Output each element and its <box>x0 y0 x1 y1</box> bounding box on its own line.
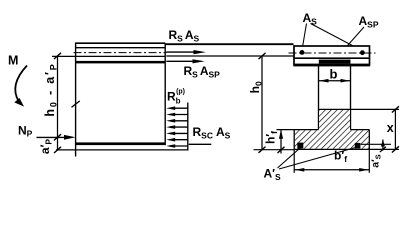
svg-text:h0 - a′P: h0 - a′P <box>43 62 59 116</box>
compression zone hatch <box>295 110 369 149</box>
web right edge <box>350 65 352 130</box>
bottom flange right edge <box>368 130 370 150</box>
section top flange <box>294 46 370 65</box>
Asp bar <box>319 60 351 64</box>
x dim tick top <box>392 106 399 112</box>
dim tick h0 top on Asp line <box>259 53 266 59</box>
beam top edge <box>75 42 165 44</box>
As bar dot right <box>360 50 365 55</box>
x dim tick bottom <box>392 146 399 152</box>
svg-text:b: b <box>330 67 338 82</box>
hatch boundary (top of compression zone) <box>319 108 351 110</box>
Rsc As underline <box>189 143 212 145</box>
bottom fibre line <box>56 149 188 151</box>
bottom flange top edge left + h'f extension <box>277 129 319 131</box>
Rb stress block arrows <box>170 108 188 146</box>
leader As to left bar <box>302 24 307 51</box>
a's extension line from bar <box>361 143 391 145</box>
break mark on beam left edge <box>72 101 80 107</box>
b dimension line <box>319 79 351 83</box>
dim tick bottom <box>54 147 61 153</box>
Asp level projection line <box>166 55 294 57</box>
h'f dimension line <box>279 130 283 154</box>
x dimension line <box>394 109 396 149</box>
beam top flange line 1 <box>76 47 166 49</box>
leader A's to left square <box>278 148 300 168</box>
Rs Asp force arrow <box>166 59 205 63</box>
bottom flange left edge <box>293 130 295 150</box>
Rs As force arrow <box>166 50 206 54</box>
leader As to right bar <box>311 24 362 51</box>
h0 dim tick bottom <box>259 147 266 153</box>
extension line at Asp level <box>52 55 76 57</box>
A's bar square left <box>297 143 303 149</box>
a's dimension line <box>382 140 384 151</box>
a's dim tick bottom <box>380 147 386 152</box>
bottom fibre extension left of section <box>254 149 295 151</box>
bottom fibre extension right of section <box>369 148 399 150</box>
h0 dimension line <box>261 56 263 150</box>
bottom flange top edge right <box>351 129 370 131</box>
leader A's to right square <box>279 148 356 170</box>
beam left edge <box>75 43 77 156</box>
Rb stress block right edge <box>187 103 189 151</box>
leader Asp to bar <box>335 27 364 60</box>
a's dim arrow up <box>381 139 385 146</box>
moment arc arrow <box>14 66 27 107</box>
web left edge <box>318 65 320 130</box>
b'f extension line right <box>368 149 370 172</box>
beam top flange dash-dot centerline <box>74 52 167 54</box>
A's bar square right <box>355 143 361 149</box>
beam right edge <box>164 43 166 145</box>
As bar dot left <box>300 50 305 55</box>
dimension line h0-a'p (vertical) <box>57 56 59 150</box>
b'f extension line left <box>293 149 295 172</box>
Np force arrow <box>37 135 76 140</box>
dim tick top <box>54 53 61 59</box>
h'f dim tick bottom <box>278 147 285 153</box>
x dim extension line <box>351 108 399 110</box>
bottom flange bottom edge <box>294 148 369 150</box>
beam top flange thick band <box>76 61 166 64</box>
beam bottom thick edge <box>76 142 166 145</box>
b'f dimension line <box>294 168 369 172</box>
dim tick at Np level <box>54 134 61 140</box>
svg-text:x: x <box>387 121 394 135</box>
top fibre projection line <box>165 43 293 45</box>
section flange centerline <box>289 52 376 54</box>
svg-text:M: M <box>8 54 18 68</box>
beam top flange line 2 <box>76 55 166 57</box>
